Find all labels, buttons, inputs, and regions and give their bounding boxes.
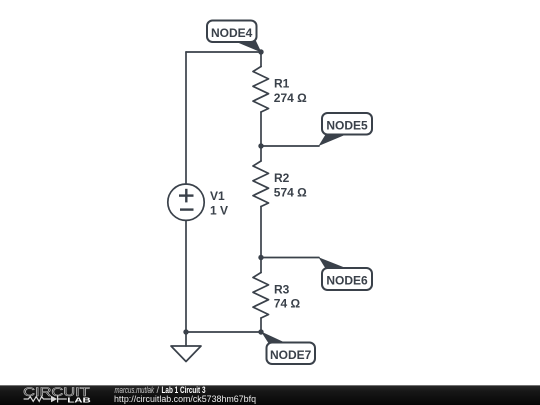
wire R1 to NODE5 junction (260, 112, 262, 146)
voltage source V1 body (168, 184, 204, 220)
wire R3 to bottom junction (260, 318, 262, 332)
resistor R2 (253, 161, 269, 207)
junction dot NODE4 (258, 49, 263, 54)
ground (171, 346, 201, 362)
voltage source V1 plus sign (179, 189, 194, 203)
footer title text (114, 385, 256, 404)
wire top horizontal NODE4 net (186, 51, 261, 53)
svg-text:NODE6: NODE6 (326, 274, 368, 288)
svg-text:R2: R2 (274, 171, 290, 185)
footer bar (0, 385, 540, 405)
wire ground lead (185, 332, 187, 346)
svg-text:R1: R1 (274, 77, 290, 91)
svg-text:274 Ω: 274 Ω (274, 91, 307, 105)
svg-text:1 V: 1 V (210, 204, 228, 218)
voltage source V1 minus sign (180, 208, 194, 210)
svg-text:LAB: LAB (67, 397, 91, 404)
svg-text:74 Ω: 74 Ω (274, 297, 301, 311)
node NODE7 flag (261, 332, 315, 365)
svg-text:NODE7: NODE7 (270, 348, 312, 362)
wire left vertical lower (V1 minus to bottom) (185, 220, 187, 332)
svg-text:NODE5: NODE5 (326, 119, 368, 133)
svg-text:R3: R3 (274, 282, 290, 296)
junction dot NODE7 (258, 329, 263, 334)
svg-text:NODE4: NODE4 (211, 26, 253, 40)
wire right vertical NODE4 to R1 (260, 52, 262, 67)
node NODE5 flag (319, 113, 373, 146)
footer CircuitLab logo (23, 385, 91, 404)
node NODE6 flag (319, 257, 373, 290)
wire bottom horizontal NODE7 net (186, 331, 261, 333)
junction dot NODE5 (258, 143, 263, 148)
wire NODE5 horizontal stub (261, 145, 319, 147)
resistor R3 (253, 273, 269, 319)
wire R2 to NODE6 junction (260, 207, 262, 258)
resistor R1 (253, 67, 269, 113)
wire left vertical upper (NODE4 to V1 plus) (185, 52, 187, 184)
wire NODE6 junction to R3 (260, 258, 262, 273)
wire NODE5 junction to R2 (260, 146, 262, 161)
junction dot ground (183, 329, 188, 334)
svg-text:V1: V1 (210, 189, 225, 203)
wire NODE6 horizontal stub (261, 257, 319, 259)
svg-text:http://circuitlab.com/ck5738hm: http://circuitlab.com/ck5738hm67bfq (114, 394, 256, 404)
svg-text:574 Ω: 574 Ω (274, 185, 307, 199)
node NODE4 flag (207, 21, 262, 53)
junction dot NODE6 (258, 255, 263, 260)
